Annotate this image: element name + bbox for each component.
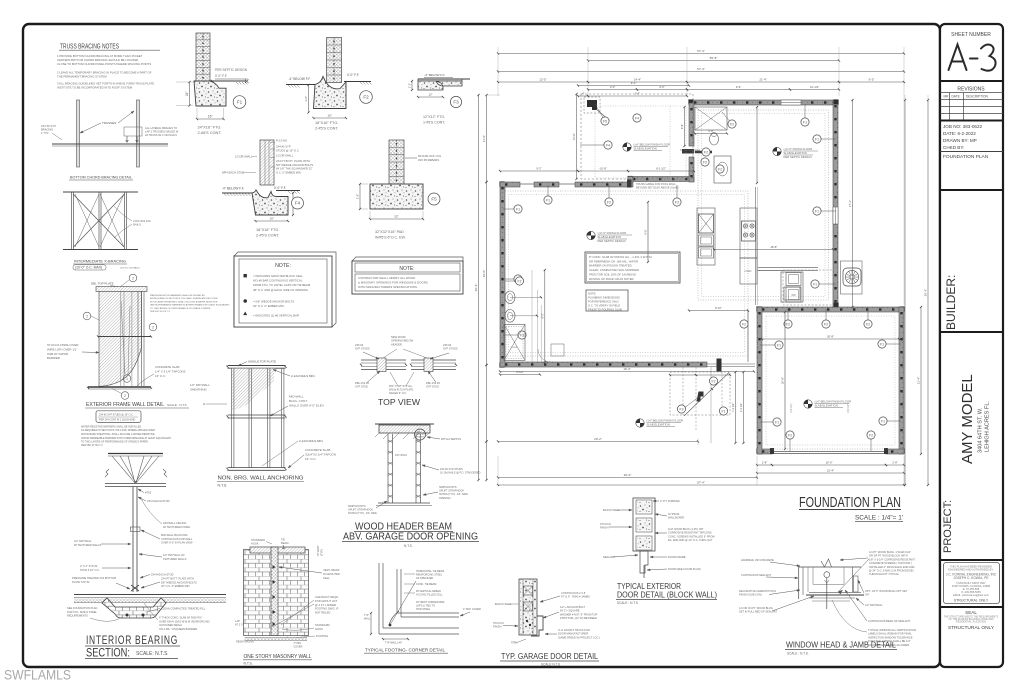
svg-text:1-#5'S CONT.: 1-#5'S CONT. (423, 120, 445, 124)
svg-text:N.T.S.: N.T.S. (244, 661, 253, 665)
counter along bottom (758, 266, 818, 268)
svg-text:9'-8": 9'-8" (680, 124, 684, 129)
svg-text:TRUSS BRACING NOTES: TRUSS BRACING NOTES (60, 42, 119, 51)
svg-text:@ 24" O.C. 6 MIN (1 IN FROM E: @ 24" O.C. 6 MIN (1 IN FROM EDGE) (869, 569, 914, 573)
svg-text:DOOR MANUFACTURER.: DOOR MANUFACTURER. (558, 632, 589, 636)
svg-text:F1: F1 (516, 207, 520, 211)
svg-text:CONC. TIE BEAM: CONC. TIE BEAM (416, 583, 436, 586)
mid tie (98, 336, 151, 338)
footing detail F2 (327, 38, 342, 83)
small interior partition stubs (747, 310, 749, 362)
svg-text:FOUNDATION PLAN: FOUNDATION PLAN (943, 154, 989, 160)
svg-text:CONTRACTOR SHALL VERIFY ALL: CONTRACTOR SHALL VERIFY ALL WOOD (358, 276, 415, 280)
svg-text:SHWR: SHWR (511, 347, 518, 349)
note box: plumbing (586, 290, 628, 311)
svg-text:WALL: WALL (364, 617, 371, 620)
svg-text:BUILDER:: BUILDER: (944, 275, 958, 330)
ff symbol patio (623, 143, 631, 151)
footing detail F5 (389, 140, 404, 184)
svg-text:2X6 #2: 2X6 #2 (355, 343, 364, 347)
svg-text:G.C. TO VERIFY IN FIELD: G.C. TO VERIFY IN FIELD (588, 304, 620, 308)
svg-text:32" O.C. 6" EMBED MIN.: 32" O.C. 6" EMBED MIN. (253, 304, 285, 308)
svg-text:REVISIONS: REVISIONS (957, 87, 985, 93)
typical exterior door detail (633, 498, 655, 551)
svg-text:FOR GROUT LIFT: FOR GROUT LIFT (315, 599, 338, 603)
svg-text:STANDARD: STANDARD (315, 623, 330, 627)
svg-text:F2: F2 (704, 150, 708, 154)
svg-text:FINISH: FINISH (600, 526, 609, 530)
svg-text:REINFORCING STEEL: REINFORCING STEEL (416, 574, 443, 577)
svg-text:BLKG. CONT: BLKG. CONT (289, 399, 307, 403)
bath2 shower (504, 324, 525, 360)
svg-text:NOTE:: NOTE: (399, 266, 414, 272)
top dims (498, 53, 904, 55)
svg-text:F1: F1 (815, 209, 819, 213)
svg-text:CONCRETE SCREWS ( TAPCONS ): CONCRETE SCREWS ( TAPCONS ) (869, 561, 912, 565)
svg-text:TRIM: TRIM (511, 641, 517, 645)
svg-text:HOOK: HOOK (251, 542, 259, 546)
svg-text:9'-0": 9'-0" (631, 81, 637, 85)
svg-text:F5: F5 (431, 197, 437, 202)
footing label circles (595, 104, 605, 121)
intermediate x-bracing diagram (63, 191, 138, 193)
svg-text:TOP VIEW: TOP VIEW (378, 397, 421, 407)
svg-text:2: 2 (152, 325, 154, 329)
svg-text:-18'-8": -18'-8" (770, 245, 778, 249)
svg-text:F2: F2 (518, 279, 522, 283)
svg-text:BARRIER ON POISON TREATED: BARRIER ON POISON TREATED (589, 264, 632, 268)
svg-text:FOUNDATION PLAN: FOUNDATION PLAN (799, 495, 901, 511)
svg-text:BEYOND SET ELEV ABOVE (SLAB): BEYOND SET ELEV ABOVE (SLAB) (636, 185, 679, 189)
svg-text:#TS2: #TS2 (145, 491, 152, 495)
svg-text:IN CONC FILLED CELL: IN CONC FILLED CELL (416, 594, 443, 597)
svg-text:CLEANOUT REQD: CLEANOUT REQD (315, 595, 338, 599)
svg-text:19'-4": 19'-4" (623, 367, 630, 371)
svg-text:1/2 DRYWALL: 1/2 DRYWALL (235, 155, 253, 159)
svg-text:BOTTOM CHORD BRACING DETAIL: BOTTOM CHORD BRACING DETAIL (70, 176, 132, 180)
svg-text:1/2" DRYWALL: 1/2" DRYWALL (74, 539, 92, 543)
svg-text:F3: F3 (680, 407, 684, 411)
svg-text:AS REQUIRED IN SECTION R-703.2: AS REQUIRED IN SECTION R-703.2 AND, WHER… (150, 297, 218, 300)
wall: garage right (899, 307, 904, 454)
svg-text:F2: F2 (703, 160, 707, 164)
svg-text:THE PERMANENT BRACING SYSTEM: THE PERMANENT BRACING SYSTEM (57, 75, 107, 79)
svg-text:8'-1 1/2": 8'-1 1/2" (656, 167, 666, 171)
svg-text:2X4 #2 SYP: 2X4 #2 SYP (276, 145, 291, 149)
svg-text:TYP. GARAGE DOOR DETAIL: TYP. GARAGE DOOR DETAIL (501, 651, 598, 661)
svg-text:55'-8": 55'-8" (710, 56, 718, 60)
svg-text:F2: F2 (730, 122, 734, 126)
svg-text:FOOTING DWG. IF: FOOTING DWG. IF (315, 607, 339, 611)
wall body hatched (99, 292, 142, 387)
svg-text:2X4 PT BOTT. PLATE WITH: 2X4 PT BOTT. PLATE WITH (161, 577, 194, 581)
svg-text:INSTALLED 6" FROM EACH END AND: INSTALLED 6" FROM EACH END AND (869, 565, 915, 569)
svg-text:LAPS & TIES TO: LAPS & TIES TO (416, 605, 435, 608)
sill assembly (809, 591, 861, 593)
svg-text:F2: F2 (824, 322, 828, 326)
svg-text:DBL 2X4 #2: DBL 2X4 #2 (355, 381, 369, 385)
a/c equipment pad w/ fan (841, 261, 863, 294)
svg-text:SCALE : N.T.S: SCALE : N.T.S (617, 601, 638, 605)
svg-text:SINGLE TOP PLATE: SINGLE TOP PLATE (248, 360, 276, 364)
svg-text:WATER-RESISTIVE BARRIERS SHAL: WATER-RESISTIVE BARRIERS SHALL BE INSTAL… (81, 426, 141, 429)
svg-text:N.T.S.: N.T.S. (404, 544, 413, 548)
svg-text:1: 1 (126, 377, 128, 381)
svg-text:STUCCO: STUCCO (493, 621, 504, 625)
svg-text:FINISH (SUB CON): FINISH (SUB CON) (739, 593, 762, 597)
drywall hatch area (231, 368, 274, 410)
svg-text:BRACING: BRACING (41, 128, 53, 132)
svg-text:STUD # 16" O.C.: STUD # 16" O.C. (80, 568, 100, 572)
svg-text:SHEATHING: SHEATHING (190, 387, 207, 391)
svg-text:& MASONRY OPENINGS FOR WINDOW: & MASONRY OPENINGS FOR WINDOWS & DOORS (358, 280, 428, 284)
note box contractor verify (352, 257, 463, 294)
svg-text:PROJECT:: PROJECT: (942, 500, 954, 553)
svg-text:(10'-0" O.C. MAX): (10'-0" O.C. MAX) (75, 266, 102, 270)
svg-text:OSB W/ VAPOR: OSB W/ VAPOR (47, 352, 68, 356)
svg-text:STRUCTURAL ONLY: STRUCTURAL ONLY (948, 625, 995, 631)
footing detail F4 (frame wall on mono footing) (260, 140, 274, 185)
svg-text:TIE: TIE (281, 538, 285, 542)
svg-text:REQUIREMENTS: REQUIREMENTS (67, 614, 88, 618)
svg-text:0'-0" F.F.: 0'-0" F.F. (274, 186, 286, 190)
svg-text:DR OPEN: DR OPEN (395, 453, 407, 457)
svg-text:UPLIFT STRAPHOOK: UPLIFT STRAPHOOK (348, 509, 373, 512)
svg-text:EA. END AND @ 24" O.C. THRU-O: EA. END AND @ 24" O.C. THRU-OUT (668, 538, 713, 542)
svg-text:#5 VERTICAL REBAR: #5 VERTICAL REBAR (416, 590, 441, 593)
svg-text:2X4 #2 SYP STUDS @ 16" O.C.: 2X4 #2 SYP STUDS @ 16" O.C. (99, 413, 134, 416)
svg-text:WALLS OVER 9'-0" ELEV.: WALLS OVER 9'-0" ELEV. (289, 403, 324, 407)
svg-text:-4" BELOW F.F.: -4" BELOW F.F. (289, 77, 311, 81)
svg-text:16": 16" (270, 217, 274, 221)
svg-text:FOOTING: FOOTING (316, 634, 328, 638)
svg-text:36'-0": 36'-0" (624, 473, 632, 477)
svg-text:TEXTURED WALLS: TEXTURED WALLS (163, 557, 187, 561)
bath2 toilets (505, 291, 515, 304)
svg-text:FOR REFERENCE ONLY.: FOR REFERENCE ONLY. (588, 300, 620, 304)
window opening top wall (781, 100, 801, 105)
svg-text:2'-8": 2'-8" (762, 461, 767, 465)
studs (231, 368, 233, 468)
svg-text:SYP STUDS: SYP STUDS (443, 347, 458, 351)
svg-text:45° BENT CORNER BAR: 45° BENT CORNER BAR (416, 601, 445, 604)
svg-text:2-#5'S CONT.: 2-#5'S CONT. (315, 127, 338, 131)
svg-text:SYP STUD: SYP STUD (355, 385, 368, 389)
svg-text:2-#5'S CONT.: 2-#5'S CONT. (256, 234, 279, 238)
svg-text:PLATE SYP #2: PLATE SYP #2 (72, 580, 90, 584)
interior dims upper (578, 85, 689, 87)
svg-text:OVEN: OVEN (745, 270, 752, 273)
svg-text:12"X12" FTG.: 12"X12" FTG. (423, 115, 445, 119)
wall: house right (833, 100, 838, 307)
svg-text:WATER-RESISTIVE BARRIERS SHALL: WATER-RESISTIVE BARRIERS SHALL BE INSTAL… (150, 294, 205, 297)
mid blocking (131, 527, 141, 532)
svg-text:20'-8": 20'-8" (827, 335, 834, 339)
svg-text:OPENING BELOW: OPENING BELOW (391, 339, 414, 343)
break mark + fastener circle (821, 559, 832, 567)
svg-text:CLEAN COMPACTED TREATED FILL: CLEAN COMPACTED TREATED FILL (161, 607, 206, 611)
svg-text:1'-2": 1'-2" (408, 83, 412, 88)
svg-text:CONTINUOUS BEAD OF SEALANT: CONTINUOUS BEAD OF SEALANT (868, 619, 910, 623)
door frame below (640, 551, 648, 573)
svg-text:MID-WALL: MID-WALL (289, 395, 304, 399)
svg-text:1/4 PT. WOOD BLDG. 1 W/HD CA: 1/4 PT. WOOD BLDG. 1 W/HD CAP (869, 550, 911, 554)
svg-text:3404 64TH ST. W.: 3404 64TH ST. W. (978, 407, 984, 453)
circles 2 (83, 312, 91, 320)
svg-text:26'-0": 26'-0" (482, 270, 486, 278)
post (132, 487, 134, 592)
footing detail F1 (196, 33, 210, 81)
stud label box (96, 411, 141, 423)
svg-text:5/8" WEDGE ANCHOR BOLTS: 5/8" WEDGE ANCHOR BOLTS (161, 580, 197, 584)
svg-text:IN GROUTED: IN GROUTED (323, 572, 340, 576)
svg-text:WIRE LATH OVER 1/2: WIRE LATH OVER 1/2 (47, 347, 77, 351)
bottom dims (500, 371, 754, 373)
ff symbol garage (804, 400, 812, 408)
svg-text:DRYWALL CEILING: DRYWALL CEILING (163, 521, 186, 525)
svg-text:MOVING UP ROAD OR AS NOTED: MOVING UP ROAD OR AS NOTED (589, 277, 634, 281)
svg-text:F2: F2 (788, 433, 792, 437)
svg-text:N.T.S.: N.T.S. (218, 484, 228, 488)
svg-text:NOTES (TYP) - DK. SIDE: NOTES (TYP) - DK. SIDE (348, 512, 377, 515)
note box: conc slab (585, 252, 680, 283)
svg-text:(15'-10"): (15'-10") (790, 403, 793, 412)
svg-text:CORROSIVE RESISTANT TAPCONS: CORROSIVE RESISTANT TAPCONS (668, 531, 712, 535)
wall: garage top (757, 307, 904, 312)
wall: step wall to patio (628, 177, 694, 182)
window opening right wall (833, 207, 838, 224)
svg-text:(TYP): (TYP) (320, 549, 324, 556)
patio dashed outline (581, 94, 693, 179)
ff symbol lower-left (587, 231, 595, 239)
svg-text:STUDS @ 16" O.C.: STUDS @ 16" O.C. (276, 148, 300, 152)
circle 2 bottom (121, 392, 129, 400)
svg-text:INTERMEDIATE X-BRACING: INTERMEDIATE X-BRACING (74, 260, 126, 264)
right dims (904, 100, 906, 485)
svg-text:8'-10": 8'-10" (715, 306, 722, 310)
svg-text:WASHER # NUT. 8" FROM TOP: WASHER # NUT. 8" FROM TOP (560, 612, 598, 616)
svg-text:OVER 6X6 # 10/10 W.W.M. REINFO: OVER 6X6 # 10/10 W.W.M. REINFORCING (159, 619, 210, 623)
svg-text:HOR STEEL: HOR STEEL (416, 608, 431, 611)
svg-text:DOOR (SEE FLOOR PLAN): DOOR (SEE FLOOR PLAN) (668, 567, 701, 571)
ff symbol entry stoop (636, 419, 644, 427)
svg-text:W/#5'S 6"O.C. EW.: W/#5'S 6"O.C. EW. (375, 235, 406, 239)
svg-text:= INDICATES GROUTED BLOCK CEL: = INDICATES GROUTED BLOCK CELL (253, 274, 303, 278)
svg-text:TRUSSES: TRUSSES (102, 121, 116, 125)
svg-text:2: 2 (132, 276, 134, 280)
svg-text:F2: F2 (718, 167, 722, 171)
typ garage door detail (519, 579, 537, 635)
svg-text:CONC. SCREWS INSTALLED 6" FRO: CONC. SCREWS INSTALLED 6" FROM (668, 534, 715, 538)
svg-text:SIMPSON MTS: SIMPSON MTS (439, 486, 457, 489)
svg-text:SIMPSON MTS: SIMPSON MTS (348, 505, 366, 508)
svg-text:CELL: CELL (323, 576, 330, 580)
svg-text:NEW DOOR: NEW DOOR (391, 335, 406, 339)
svg-text:F2: F2 (712, 379, 716, 383)
bottom plate (228, 467, 286, 469)
footing bottom (245, 637, 307, 639)
svg-text:ALL LATERAL BRACES TO: ALL LATERAL BRACES TO (145, 126, 177, 130)
svg-text:F1: F1 (777, 343, 781, 347)
svg-text:8" CONC. SLAB W/ 6X6X10 GA. -: 8" CONC. SLAB W/ 6X6X10 GA. - 1.4X1.4 W.… (589, 255, 653, 259)
entry circles (709, 377, 717, 385)
svg-text:CONTINUOUS 2 X 8: CONTINUOUS 2 X 8 (561, 591, 586, 595)
svg-text:HORIZONTAL TIE BEAM: HORIZONTAL TIE BEAM (416, 570, 444, 573)
svg-text:THROUGHOUT TYPICAL: THROUGHOUT TYPICAL (869, 572, 900, 576)
svg-text:JOB NO: 383-0622: JOB NO: 383-0622 (943, 124, 983, 129)
svg-text:48" O.C. AND @ EACH SIDE OF OP: 48" O.C. AND @ EACH SIDE OF OPENING (253, 288, 308, 292)
svg-text:SYP STUDS: SYP STUDS (355, 347, 370, 351)
svg-text:SHEET NUMBER: SHEET NUMBER (951, 32, 991, 38)
svg-text:16": 16" (328, 114, 332, 118)
svg-text:NAILED 9" O.C.: NAILED 9" O.C. (389, 392, 407, 395)
svg-text:LAP: LAP (235, 619, 240, 623)
svg-text:= 5/8" WEDGE ANCHOR BOLTS: = 5/8" WEDGE ANCHOR BOLTS (253, 300, 294, 304)
svg-text:1/4 OR 3/4 PT. WOOD BLDG: 1/4 OR 3/4 PT. WOOD BLDG (739, 606, 773, 610)
svg-text:5/8" WEDGE ANCHOR BOLTS: 5/8" WEDGE ANCHOR BOLTS (276, 163, 313, 167)
svg-text:7'-2 1/2": 7'-2 1/2" (731, 403, 735, 413)
svg-text:9'-2": 9'-2" (536, 167, 541, 171)
svg-text:57'-4": 57'-4" (697, 67, 705, 71)
svg-text:WOOD-BASE SHEATHING, SHALL INC: WOOD-BASE SHEATHING, SHALL INCLUDE A WAT… (150, 300, 218, 303)
svg-text:2" P.T. FURRING: 2" P.T. FURRING (660, 499, 680, 503)
svg-text:AS SPECIFIED: AS SPECIFIED (416, 577, 433, 580)
svg-text:24"X16" FTG.: 24"X16" FTG. (198, 125, 222, 130)
svg-text:AMY MODEL: AMY MODEL (959, 374, 976, 464)
svg-text:EXTERIOR FRAME WALL DETAIL: EXTERIOR FRAME WALL DETAIL (86, 402, 164, 408)
svg-text:SECTION:: SECTION: (86, 646, 130, 660)
svg-text:DBL TOP PLATE: DBL TOP PLATE (91, 282, 114, 286)
svg-text:SYP STUD: SYP STUD (426, 385, 439, 389)
svg-text:HEADER: HEADER (391, 342, 402, 346)
svg-text:2X4 W 2 16d NAILS: 2X4 W 2 16d NAILS (120, 267, 140, 270)
wood header beam detail (379, 425, 430, 433)
svg-text:PER SEPTIC DESIGN: PER SEPTIC DESIGN (784, 155, 812, 159)
truss bracing diagram (77, 100, 80, 167)
ext line garage right to top dims (903, 96, 905, 305)
svg-text:STRUCTURAL ONLY: STRUCTURAL ONLY (954, 599, 989, 603)
svg-text:DRAWN BY: MP: DRAWN BY: MP (943, 138, 977, 143)
svg-text:OR 3/4 PT. WOOD BLOCK WITH: OR 3/4 PT. WOOD BLOCK WITH (869, 554, 908, 558)
svg-text:NOTES (TYP) - DK. SIDE: NOTES (TYP) - DK. SIDE (439, 493, 468, 496)
svg-text:STUCCO: STUCCO (600, 522, 611, 526)
svg-text:1/4" X 3 1/4" TAPCONS: 1/4" X 3 1/4" TAPCONS (155, 369, 186, 373)
svg-text:W/16d FLTCH PLATE: W/16d FLTCH PLATE (389, 389, 414, 392)
bottom plate / slab (88, 386, 151, 388)
svg-text:F1: F1 (803, 120, 807, 124)
svg-text:2X4 # EACH STUD: 2X4 # EACH STUD (147, 499, 170, 503)
mid blocking (228, 414, 286, 416)
one story masonry wall (244, 550, 309, 636)
svg-text:F4: F4 (606, 143, 610, 147)
patio column (587, 100, 597, 110)
svg-text:3(1)4"X2-1/4" TAPCON: 3(1)4"X2-1/4" TAPCON (305, 452, 336, 456)
svg-text:#5 VERT: #5 VERT (316, 545, 320, 556)
svg-text:(15'-10"): (15'-10") (847, 403, 850, 412)
svg-text:IN POURED MESH: IN POURED MESH (159, 623, 182, 627)
svg-text:F4: F4 (295, 201, 301, 206)
svg-text:21'-4": 21'-4" (759, 78, 766, 82)
svg-text:PER SEPTIC DESIGN: PER SEPTIC DESIGN (215, 68, 248, 72)
door arc (538, 349, 551, 362)
svg-text:F1: F1 (815, 137, 819, 141)
svg-text:H.M. DOOR BUCK (1-PC) 3/8": H.M. DOOR BUCK (1-PC) 3/8" (668, 527, 704, 531)
svg-text:F1: F1 (881, 419, 885, 423)
svg-text:UPLIFT STRAPHOOK: UPLIFT STRAPHOOK (439, 490, 464, 493)
svg-text:SEAL: SEAL (965, 610, 977, 615)
svg-text:F1: F1 (237, 100, 243, 105)
svg-text:0'-0" F.F.: 0'-0" F.F. (347, 73, 359, 77)
svg-text:EMAIL: jckowval.eng@aol.com: EMAIL: jckowval.eng@aol.com (953, 593, 989, 597)
svg-text:8'-0": 8'-0" (541, 313, 544, 318)
svg-text:W/TH-2 SEPTUS: W/TH-2 SEPTUS (441, 437, 461, 441)
svg-text:F2: F2 (866, 322, 870, 326)
slab dashed insets (698, 110, 829, 300)
svg-text:17'-1": 17'-1" (848, 200, 852, 207)
svg-text:OPENING: OPENING (439, 497, 451, 500)
svg-text:TYP WALL LAP: TYP WALL LAP (385, 642, 402, 645)
svg-text:F2: F2 (607, 200, 611, 204)
svg-text:CONTINUOUS FOR WALL: CONTINUOUS FOR WALL (161, 537, 193, 541)
svg-text:PLUMBING DIMENSIONS: PLUMBING DIMENSIONS (588, 296, 620, 300)
svg-text:SCALE : N.T.S: SCALE : N.T.S (167, 403, 187, 407)
svg-text:18"X16" FTG.: 18"X16" FTG. (315, 121, 338, 125)
svg-text:(SAME SPEED W/ PROJECT LOC.): (SAME SPEED W/ PROJECT LOC.) (558, 635, 600, 639)
svg-text:NAILS: NAILS (133, 223, 141, 227)
svg-text:20'-8": 20'-8" (781, 377, 785, 384)
closet small box (551, 344, 564, 356)
svg-text:-10'-8": -10'-8" (599, 167, 607, 171)
svg-text:# BOTTOM. (24" W) BETWEEN: # BOTTOM. (24" W) BETWEEN (560, 616, 597, 620)
crossing leaders (838, 559, 869, 592)
svg-text:10'-1/2": 10'-1/2" (810, 85, 819, 89)
svg-text:F2: F2 (675, 200, 679, 204)
wall: garage left (757, 307, 762, 454)
svg-text:O.H. DOOR # TRACK FOR: O.H. DOOR # TRACK FOR (558, 628, 590, 632)
svg-text:DBL 2X4 #2: DBL 2X4 #2 (426, 381, 440, 385)
svg-text:WINDOW HEAD & JAMB DETAIL: WINDOW HEAD & JAMB DETAIL (786, 640, 896, 650)
svg-text:SET IN FULL BED OF SEALANT: SET IN FULL BED OF SEALANT (739, 610, 778, 614)
interior partition kitchen/laundry (755, 187, 757, 305)
svg-text:2: 2 (86, 314, 88, 318)
svg-text:2 DIA W/3 16d: 2 DIA W/3 16d (133, 219, 151, 223)
svg-text:R-13 INS.: R-13 INS. (276, 139, 288, 143)
svg-text:WITH MANUFACTURERS SPECIFICATI: WITH MANUFACTURERS SPECIFICATIONS. (358, 285, 418, 289)
svg-text:ABV. GARAGE DOOR OPENING: ABV. GARAGE DOOR OPENING (343, 531, 478, 543)
svg-text:16": 16" (208, 115, 213, 119)
svg-text:18"X16" FTG.: 18"X16" FTG. (256, 228, 279, 232)
svg-text:2X4 W/ SYP: 2X4 W/ SYP (41, 124, 56, 128)
svg-text:21'-4": 21'-4" (827, 469, 834, 473)
svg-text:16'-0": 16'-0" (826, 461, 833, 465)
svg-text:LEHIGH ACRES FL.: LEHIGH ACRES FL. (985, 401, 991, 452)
svg-text:2X4 #2 SYP STUDS: 2X4 #2 SYP STUDS (440, 468, 463, 471)
svg-text:PROCTOR SOIL 10% OF 1/8 AB: PROCTOR SOIL 10% OF 1/8 ABOVE (589, 272, 636, 276)
svg-text:NON. BRG. WALL ANCHORING: NON. BRG. WALL ANCHORING (218, 476, 304, 482)
svg-text:2" X 4" SYP #2: 2" X 4" SYP #2 (80, 564, 98, 568)
svg-text:29'-2": 29'-2" (594, 437, 602, 441)
svg-text:STANDARD: STANDARD (251, 538, 265, 542)
svg-text:WALLBOARD: WALLBOARD (668, 516, 684, 520)
svg-text:2X4 PT BOTT. PLATE WITH: 2X4 PT BOTT. PLATE WITH (276, 159, 310, 163)
svg-text:F1: F1 (722, 409, 726, 413)
svg-text:W/4" X 5/8" SYP GA.: W/4" X 5/8" SYP GA. (389, 385, 413, 388)
svg-text:F3: F3 (453, 100, 459, 105)
svg-text:-4": -4" (581, 93, 584, 96)
svg-text:16" O.C.: 16" O.C. (155, 374, 166, 378)
garage interior dims (762, 338, 899, 340)
slab and footing (74, 594, 226, 596)
